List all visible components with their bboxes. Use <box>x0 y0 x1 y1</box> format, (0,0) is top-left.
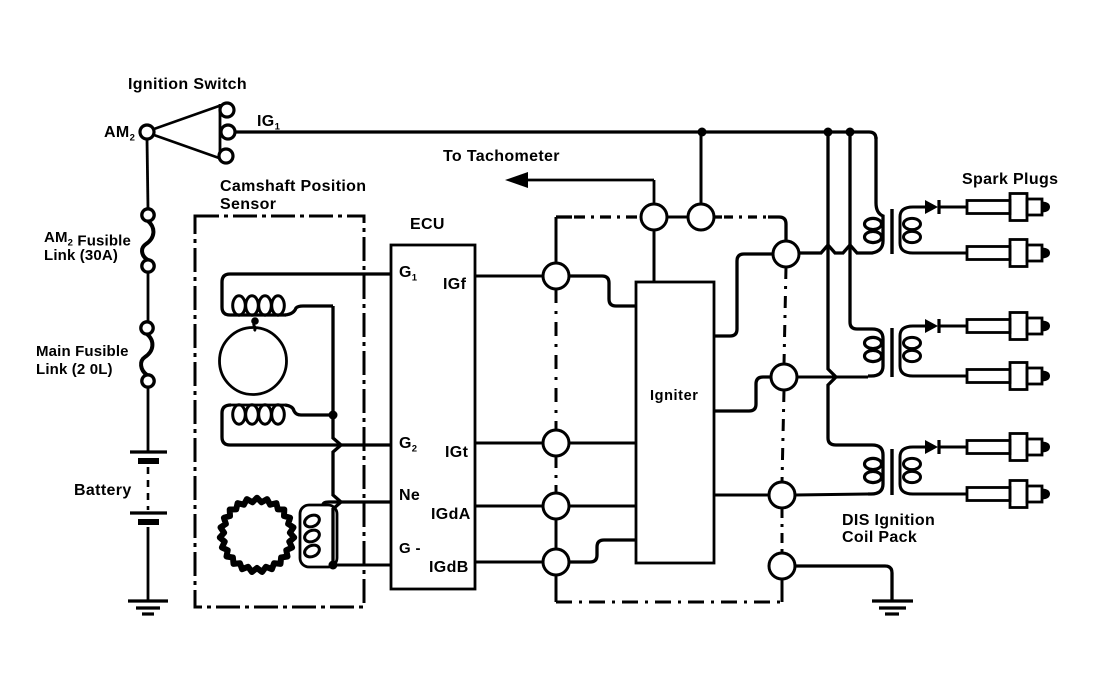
svg-text:IGdA: IGdA <box>431 506 471 523</box>
svg-text:Sensor: Sensor <box>220 196 276 213</box>
svg-text:DIS Ignition: DIS Ignition <box>842 512 935 529</box>
svg-text:Link (2 0L): Link (2 0L) <box>36 361 113 378</box>
svg-text:Igniter: Igniter <box>650 388 699 404</box>
svg-text:IGdB: IGdB <box>429 559 469 576</box>
svg-text:Link (30A): Link (30A) <box>44 247 118 264</box>
svg-text:Camshaft Position: Camshaft Position <box>220 178 366 195</box>
svg-text:IGf: IGf <box>443 276 467 293</box>
svg-text:Spark Plugs: Spark Plugs <box>962 171 1058 188</box>
svg-text:Coil Pack: Coil Pack <box>842 529 917 546</box>
svg-text:G -: G - <box>399 540 421 557</box>
svg-text:Battery: Battery <box>74 482 132 499</box>
svg-text:IG1: IG1 <box>257 113 281 133</box>
svg-text:Main Fusible: Main Fusible <box>36 343 129 360</box>
svg-text:Ignition Switch: Ignition Switch <box>128 76 247 93</box>
svg-text:To Tachometer: To Tachometer <box>443 148 560 165</box>
svg-text:G2: G2 <box>399 435 417 455</box>
svg-text:IGt: IGt <box>445 444 469 461</box>
svg-text:Ne: Ne <box>399 487 420 504</box>
svg-text:AM2: AM2 <box>104 124 135 144</box>
svg-text:ECU: ECU <box>410 216 445 233</box>
svg-text:G1: G1 <box>399 264 418 284</box>
